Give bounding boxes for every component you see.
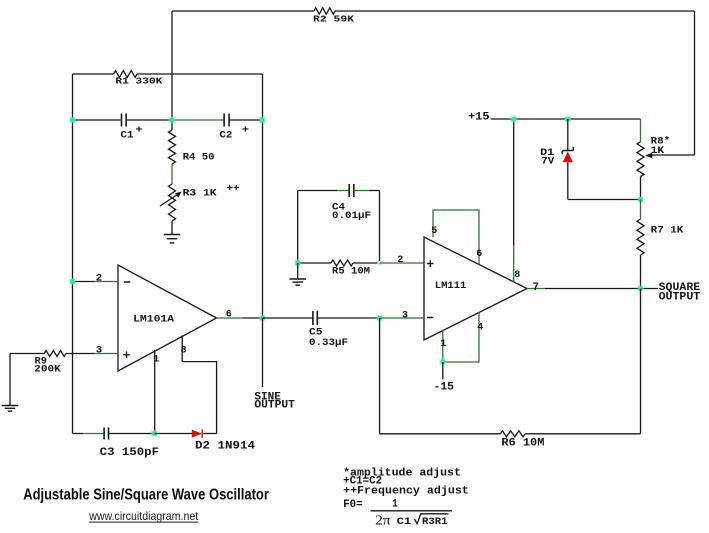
formula numerator 1 — [392, 498, 398, 510]
U2 minus sign — [427, 317, 433, 319]
node dot pin2 — [69, 278, 77, 286]
node dot -15 — [439, 358, 447, 366]
wire pin 1 drop — [154, 350, 156, 434]
svg-text:R2 59K: R2 59K — [313, 14, 354, 25]
resistor R7 — [637, 219, 644, 255]
svg-text:C1: C1 — [121, 130, 134, 142]
wire U2 output green — [527, 288, 545, 290]
wire rect right edge — [262, 74, 264, 318]
wire rect top-left segment — [73, 73, 114, 75]
ground below C4 loop — [289, 263, 306, 285]
svg-text:1: 1 — [153, 354, 159, 366]
svg-text:F0=: F0= — [343, 499, 363, 511]
label LM111 pin 2 — [397, 254, 403, 266]
svg-text:R1 330K: R1 330K — [115, 76, 162, 87]
R3 wiper arrow — [160, 192, 182, 207]
wire R9 ground drop — [9, 354, 11, 406]
label C1 plus — [136, 125, 143, 137]
wire C4 top right — [369, 190, 380, 192]
wire pin3 green part — [94, 353, 118, 355]
label R5 10M — [332, 266, 370, 278]
formula fraction bar — [371, 510, 452, 512]
wire R7 bottom stub — [640, 255, 642, 289]
label pin 5 — [431, 225, 437, 237]
wire R8 top stub green — [640, 119, 642, 142]
svg-text:-15: -15 — [434, 381, 455, 393]
wire pin2 LM101A black part — [73, 281, 95, 283]
label C1 — [121, 130, 134, 142]
label C5 value — [309, 337, 348, 349]
svg-text:D2 1N914: D2 1N914 — [195, 440, 255, 452]
label pin 4 — [477, 322, 483, 334]
svg-text:R4 50: R4 50 — [183, 152, 215, 164]
wire pin 8 path — [182, 335, 216, 433]
svg-text:C3 150pF: C3 150pF — [100, 447, 159, 459]
formula F0= — [343, 499, 363, 511]
svg-text:R6 10M: R6 10M — [501, 437, 544, 449]
label R4 50 — [183, 152, 215, 164]
label -15 — [434, 381, 455, 393]
wire square node down — [640, 289, 642, 434]
wire R4 to R3 (green) — [171, 164, 173, 184]
note amplitude adjust — [343, 467, 461, 479]
svg-text:++: ++ — [227, 183, 240, 195]
zener diode D1 — [562, 147, 573, 163]
U1 plus sign — [123, 352, 130, 359]
wire C4 loop left vertical — [297, 191, 299, 264]
website link text — [88, 509, 198, 523]
wire +15 to pin8 black — [513, 119, 515, 245]
wire sine output drop — [262, 318, 264, 387]
resistor R8 adjustable — [637, 142, 644, 177]
wire C1 to center node — [127, 119, 172, 121]
label pin 2 — [96, 273, 103, 285]
wire R8 bottom stub — [640, 177, 642, 200]
wire R9 to pin3 — [66, 353, 94, 355]
wire R6 row right — [525, 433, 641, 435]
label 7V — [541, 155, 555, 167]
resistor R1 — [114, 71, 137, 78]
svg-text:1K: 1K — [651, 145, 665, 157]
svg-text:R3 1K: R3 1K — [183, 188, 218, 200]
capacitor C2 — [224, 114, 229, 127]
svg-text:7: 7 — [533, 282, 540, 294]
svg-text:0.33µF: 0.33µF — [309, 337, 348, 349]
svg-text:++Frequency adjust: ++Frequency adjust — [343, 485, 469, 497]
wire bottom green to C3 — [83, 433, 104, 435]
label C2 plus — [242, 125, 249, 137]
diode D2 1N914 — [192, 429, 203, 438]
wire C3 to node — [109, 433, 155, 435]
pale node dot R5 — [378, 261, 383, 266]
website link underline — [89, 521, 198, 523]
label pin 3 — [96, 344, 103, 356]
wire center node to C2 (green) — [172, 119, 224, 121]
label SQUARE — [659, 282, 701, 294]
label LM111 pin 1 — [440, 338, 446, 350]
label LM111 pin 3 — [402, 309, 408, 321]
label LM101A — [133, 313, 175, 325]
note frequency adjust — [343, 485, 469, 497]
U2 plus sign — [427, 260, 434, 267]
svg-text:8: 8 — [514, 269, 520, 281]
wire rect top-right segment — [137, 73, 263, 75]
node dot center — [168, 116, 176, 124]
label C2 — [219, 130, 232, 142]
wire -15 stub — [442, 362, 444, 380]
label D2 1N914 — [195, 440, 255, 452]
note C1=C2 — [343, 475, 382, 487]
label pin 6 — [226, 308, 232, 320]
node dot left — [69, 116, 77, 124]
svg-text:+: + — [242, 125, 249, 137]
svg-text:5: 5 — [431, 225, 437, 237]
svg-text:C1: C1 — [397, 516, 412, 528]
resistor R2 — [314, 8, 335, 14]
node dot D1 rail — [564, 115, 572, 123]
wire R6 row left — [380, 433, 501, 435]
svg-text:LM101A: LM101A — [133, 313, 175, 325]
node dot pin8 rail — [510, 115, 518, 123]
wire pin2 LM101A green part — [94, 281, 118, 283]
wire right-edge down to R8 wiper — [694, 11, 696, 155]
label R1 330K — [115, 76, 162, 87]
svg-text:2π: 2π — [375, 513, 391, 528]
node dot C5 — [376, 314, 384, 322]
label R2 59K — [313, 14, 354, 25]
wire pin1-4 loop — [443, 312, 479, 362]
label OUTPUT square — [659, 291, 701, 303]
label R3 1K — [183, 188, 218, 200]
wire R3 to ground — [171, 221, 173, 234]
svg-text:R3R1: R3R1 — [422, 516, 448, 528]
label pin 8 — [181, 344, 187, 356]
svg-text:R7 1K: R7 1K — [651, 225, 684, 237]
label SINE — [254, 391, 281, 403]
capacitor C1 — [122, 114, 127, 127]
wire D1 top lead — [567, 119, 569, 150]
svg-text:Adjustable Sine/Square Wave Os: Adjustable Sine/Square Wave Oscillator — [23, 487, 269, 504]
svg-text:6: 6 — [476, 248, 482, 260]
svg-text:200K: 200K — [34, 364, 61, 376]
svg-text:R5 10M: R5 10M — [332, 266, 370, 278]
label pin 7 — [533, 282, 540, 294]
label C3 150pF — [100, 447, 159, 459]
node dot R8-R7 — [637, 196, 645, 204]
formula radical sign — [415, 513, 422, 524]
R8 wiper arrowhead — [645, 153, 652, 159]
label R8* — [651, 136, 671, 148]
wire R8 wiper horizontal — [649, 154, 695, 156]
svg-text:3: 3 — [402, 309, 408, 321]
wire D1 to R8 node — [568, 199, 641, 201]
label C5 — [309, 327, 323, 339]
label OUTPUT sine — [254, 400, 295, 412]
wire +15 to pin8 green — [513, 245, 515, 282]
wire R5 to pale node — [353, 262, 380, 264]
label +15 — [468, 111, 490, 123]
wire +15 rail — [491, 118, 641, 120]
ground below R9 — [2, 406, 19, 412]
resistor R3 adjustable — [169, 184, 176, 221]
wire C4 lead left green — [337, 190, 349, 192]
formula radicand R3R1 — [422, 516, 448, 528]
wire node to D2 — [155, 433, 192, 435]
svg-text:+: + — [136, 125, 143, 137]
wire node to R4 — [171, 120, 173, 130]
label pin 1 — [153, 354, 159, 366]
op-amp U1 LM101A triangle — [118, 265, 217, 371]
node dot square output — [637, 285, 645, 293]
svg-text:1: 1 — [440, 338, 446, 350]
label C4 value — [332, 210, 371, 222]
node dot C3 — [151, 430, 159, 438]
label R8 1K — [651, 145, 665, 157]
resistor R5 — [331, 260, 353, 266]
op-amp U2 LM111 triangle — [424, 237, 527, 340]
formula radical overline — [421, 513, 449, 515]
capacitor C3 — [104, 428, 108, 440]
wire top feedback right — [335, 10, 695, 12]
wire R9 left corner — [10, 353, 44, 355]
svg-text:0.01µF: 0.01µF — [332, 210, 371, 222]
wire node to C5 — [263, 317, 313, 319]
wire node row left — [73, 119, 121, 121]
wire vertical x172 top — [171, 11, 173, 120]
wire rect left edge — [72, 74, 74, 434]
label R6 10M — [501, 437, 544, 449]
svg-text:7V: 7V — [541, 155, 555, 167]
svg-text:4: 4 — [477, 322, 483, 334]
label plus-plus frequency marker — [227, 183, 240, 195]
ground below R3 — [164, 235, 181, 243]
label pin 6 LM111 — [476, 248, 482, 260]
label C4 — [332, 202, 345, 214]
label LM111 — [435, 280, 467, 292]
formula denominator 2pi — [375, 513, 391, 528]
wire top feedback left — [172, 10, 314, 12]
capacitor C5 — [313, 311, 317, 325]
resistor R9 — [44, 351, 66, 357]
wire pin3 node down — [379, 318, 381, 434]
wire C4 loop right vertical — [379, 191, 381, 264]
svg-text:6: 6 — [226, 308, 232, 320]
node dot right — [259, 116, 267, 124]
svg-text:OUTPUT: OUTPUT — [659, 291, 701, 303]
wire D2 to corner — [203, 433, 216, 435]
capacitor C4 — [349, 184, 354, 197]
label LM111 pin 8 — [514, 269, 520, 281]
wire to LM111 pin3 green — [380, 317, 424, 319]
svg-text:www.circuitdiagram.net: www.circuitdiagram.net — [88, 509, 198, 523]
resistor R6 — [500, 431, 525, 437]
svg-text:2: 2 — [96, 273, 103, 285]
svg-text:OUTPUT: OUTPUT — [254, 400, 295, 412]
svg-text:8: 8 — [181, 344, 187, 356]
label R7 1K — [651, 225, 684, 237]
wire D1 bottom lead — [567, 163, 569, 200]
wire to LM111 pin2 green — [380, 262, 425, 264]
formula denominator C1 — [397, 516, 412, 528]
svg-text:LM111: LM111 — [435, 280, 467, 292]
svg-text:2: 2 — [397, 254, 403, 266]
wire U1 output black — [243, 317, 263, 319]
wire pin5-6 balance loop — [433, 210, 479, 265]
node dot U1 output — [259, 314, 267, 322]
U1 minus sign — [124, 281, 130, 283]
wire bottom left segment — [73, 433, 84, 435]
svg-text:+15: +15 — [468, 111, 490, 123]
svg-text:3: 3 — [96, 344, 103, 356]
label R9 — [35, 355, 48, 367]
wire U1 output green — [217, 317, 244, 319]
wire C5 to node — [317, 317, 379, 319]
node dot C4 ground corner — [294, 259, 302, 267]
svg-text:1: 1 — [392, 498, 398, 510]
wire C2 to right node — [229, 119, 262, 121]
label 200K — [34, 364, 61, 376]
wire R5 row left — [298, 262, 331, 264]
wire C4 lead right green — [354, 190, 369, 192]
label D1 — [540, 147, 554, 159]
resistor R4 — [169, 130, 176, 164]
wire U2 output — [545, 288, 658, 290]
svg-text:C2: C2 — [219, 130, 232, 142]
title text — [23, 487, 269, 504]
wire R7 top stub green — [640, 200, 642, 220]
wire C4 top left — [298, 190, 337, 192]
